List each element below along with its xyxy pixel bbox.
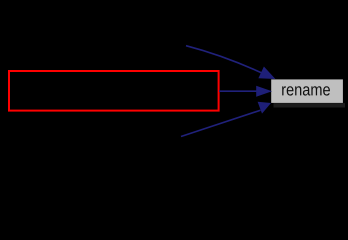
node rename: gray box xyxy=(271,79,343,103)
edge from bottom caller xyxy=(181,110,261,136)
resample halo under rename box xyxy=(274,103,346,107)
call graph canvas xyxy=(0,0,348,183)
edge from red caller (horizontal) xyxy=(219,90,257,92)
arrowhead top edge xyxy=(258,67,275,80)
edge from top caller xyxy=(186,46,263,74)
node: red-bordered caller box (truncated node) xyxy=(9,71,219,111)
arrowhead bottom edge xyxy=(258,102,271,114)
label rename xyxy=(282,86,330,95)
arrowhead middle edge xyxy=(256,86,272,97)
